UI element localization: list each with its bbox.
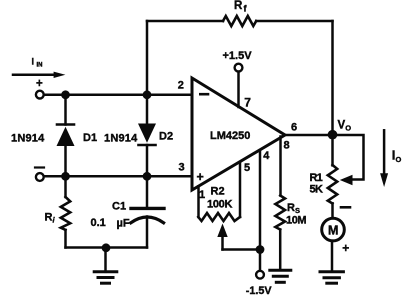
diode D1 (11, 95, 97, 177)
wire top input rail (44, 94, 192, 97)
svg-text:R1: R1 (310, 172, 323, 184)
wire feedback top left (147, 20, 223, 23)
svg-text:10M: 10M (286, 214, 306, 226)
ground main (94, 248, 117, 283)
pin 5 wire (239, 163, 242, 218)
node junction top D1 (61, 90, 70, 99)
svg-text:IN: IN (37, 63, 43, 69)
meter M (322, 207, 350, 255)
pin 7 wire (237, 72, 240, 108)
input current arrow Iin (13, 57, 65, 79)
terminal +1.5V (223, 50, 253, 72)
pin 1 wire (197, 186, 200, 217)
svg-text:+: + (197, 170, 204, 184)
svg-text:5: 5 (244, 162, 250, 174)
svg-text:µF: µF (117, 217, 130, 229)
svg-text:M: M (328, 223, 338, 237)
svg-text:R: R (45, 212, 53, 224)
pin 6 output wire (284, 134, 333, 137)
svg-text:0.1: 0.1 (91, 217, 106, 229)
wire R1 wiper loop (333, 135, 364, 185)
wire bottom input rail (44, 175, 192, 178)
terminal plus input (36, 78, 44, 99)
svg-text:1: 1 (199, 189, 205, 201)
svg-text:8: 8 (284, 139, 290, 151)
node Vo label (338, 119, 352, 132)
svg-text:O: O (345, 123, 351, 132)
svg-text:+: + (36, 78, 43, 90)
svg-text:1N914: 1N914 (104, 132, 138, 144)
svg-text:R: R (287, 202, 295, 214)
svg-text:R2: R2 (211, 185, 225, 197)
wire bottom connecting Ri and C1 (66, 246, 148, 249)
node junction bottom C1 (143, 172, 152, 181)
svg-text:4: 4 (263, 150, 270, 162)
node junction -1.5V (256, 245, 265, 254)
svg-text:LM4250: LM4250 (210, 130, 250, 142)
svg-text:R: R (234, 0, 243, 12)
svg-text:100K: 100K (207, 199, 232, 211)
svg-text:1N914: 1N914 (11, 132, 45, 144)
node junction ground (102, 243, 111, 252)
resistor Ri (45, 176, 71, 247)
svg-text:-1.5V: -1.5V (246, 285, 273, 297)
potentiometer R1 (310, 135, 338, 219)
node junction bottom Ri (61, 172, 70, 181)
wire feedback right vertical (331, 21, 334, 135)
terminal -1.5V (246, 271, 273, 297)
capacitor C1 (91, 176, 165, 247)
node Vo junction (328, 130, 338, 140)
node junction top D2/feedback (143, 90, 152, 99)
current arrow Io (380, 130, 401, 187)
svg-text:I: I (32, 57, 35, 67)
wire feedback top right (256, 20, 332, 23)
svg-text:5K: 5K (310, 183, 324, 195)
ground meter (320, 272, 343, 284)
diode D2 (104, 95, 173, 177)
svg-text:6: 6 (291, 121, 297, 133)
op-amp U1 LM4250 (192, 78, 285, 190)
resistor Rs (275, 196, 306, 270)
svg-text:3: 3 (179, 162, 185, 174)
resistor Rf (223, 0, 256, 26)
svg-text:V: V (338, 119, 346, 131)
wire meter to ground (331, 241, 334, 271)
svg-text:2: 2 (178, 79, 184, 91)
potentiometer R2 (198, 185, 260, 249)
terminal minus input (35, 168, 44, 181)
ground Rs (270, 270, 291, 282)
wire feedback left vertical (146, 21, 149, 95)
svg-text:O: O (396, 155, 402, 164)
svg-text:7: 7 (244, 96, 251, 110)
svg-text:D1: D1 (83, 132, 97, 144)
svg-text:+1.5V: +1.5V (223, 50, 253, 62)
pin 8 wire (279, 137, 282, 196)
pin 4 wire (259, 150, 262, 270)
svg-text:+: + (342, 241, 349, 255)
svg-text:C1: C1 (112, 200, 126, 212)
svg-text:D2: D2 (159, 130, 173, 142)
